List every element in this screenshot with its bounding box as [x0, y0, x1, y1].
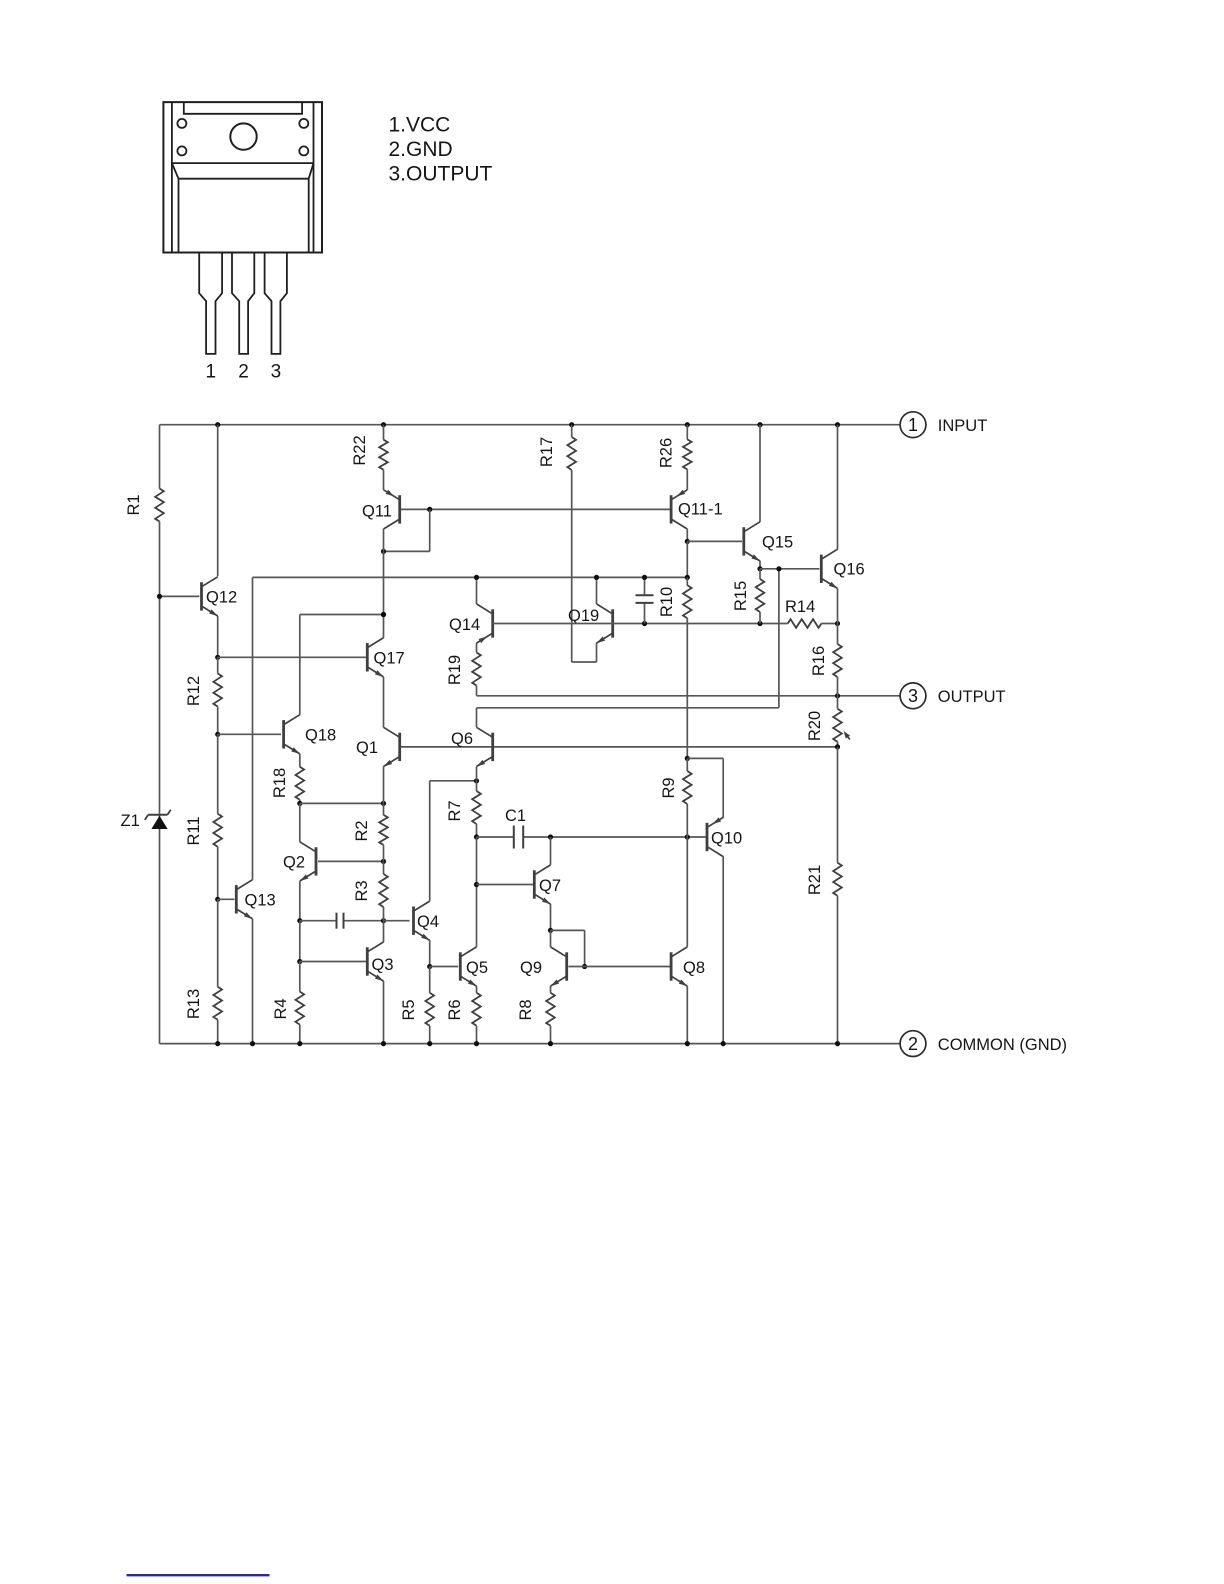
svg-text:R26: R26	[658, 438, 676, 468]
svg-text:R20: R20	[806, 711, 824, 741]
svg-text:Q19: Q19	[568, 607, 599, 625]
svg-text:3.OUTPUT: 3.OUTPUT	[389, 163, 493, 186]
svg-text:1: 1	[206, 362, 217, 383]
svg-text:R18: R18	[271, 768, 289, 798]
svg-text:2: 2	[238, 362, 249, 383]
svg-text:R2: R2	[353, 820, 371, 841]
svg-text:Q13: Q13	[245, 892, 276, 910]
svg-text:R8: R8	[517, 999, 535, 1020]
svg-text:INPUT: INPUT	[938, 417, 988, 435]
svg-text:2: 2	[908, 1034, 918, 1054]
svg-text:Q3: Q3	[372, 956, 394, 974]
svg-text:R9: R9	[660, 777, 678, 798]
svg-text:OUTPUT: OUTPUT	[938, 688, 1006, 706]
svg-text:R11: R11	[185, 816, 203, 845]
svg-text:Q17: Q17	[374, 650, 405, 668]
svg-text:Q4: Q4	[417, 913, 439, 931]
svg-text:R1: R1	[125, 494, 143, 515]
svg-text:R21: R21	[806, 865, 824, 895]
svg-text:R6: R6	[446, 999, 464, 1020]
svg-text:Q1: Q1	[356, 739, 378, 757]
svg-text:1.VCC: 1.VCC	[389, 114, 451, 137]
svg-text:Q14: Q14	[449, 616, 480, 634]
svg-text:Q8: Q8	[683, 959, 705, 977]
svg-text:1: 1	[908, 415, 918, 435]
svg-text:Q11-1: Q11-1	[678, 501, 723, 519]
svg-text:COMMON (GND): COMMON (GND)	[938, 1036, 1067, 1054]
svg-text:Q6: Q6	[451, 730, 473, 748]
svg-text:Q10: Q10	[711, 830, 742, 848]
svg-text:R19: R19	[446, 655, 464, 685]
svg-text:R16: R16	[810, 646, 828, 676]
svg-text:Q12: Q12	[206, 589, 237, 607]
svg-text:Q16: Q16	[834, 561, 865, 579]
svg-text:Q9: Q9	[520, 959, 542, 977]
svg-text:R7: R7	[446, 800, 464, 821]
svg-text:C1: C1	[505, 807, 526, 825]
svg-text:Z1: Z1	[121, 812, 140, 830]
svg-text:Q18: Q18	[305, 727, 336, 745]
svg-text:R10: R10	[658, 587, 676, 617]
svg-text:3: 3	[271, 362, 282, 383]
svg-text:R14: R14	[785, 598, 815, 616]
svg-text:R3: R3	[353, 880, 371, 901]
svg-text:R5: R5	[400, 999, 418, 1020]
svg-text:R15: R15	[732, 581, 750, 611]
svg-text:Q5: Q5	[466, 959, 488, 977]
svg-text:R17: R17	[538, 437, 556, 467]
svg-text:Q7: Q7	[539, 877, 561, 895]
svg-text:R22: R22	[351, 435, 369, 465]
svg-text:Q15: Q15	[762, 534, 793, 552]
svg-text:Q2: Q2	[283, 854, 305, 872]
svg-text:2.GND: 2.GND	[389, 138, 453, 161]
svg-text:R4: R4	[272, 998, 290, 1019]
svg-text:3: 3	[908, 686, 918, 706]
svg-text:R13: R13	[185, 989, 203, 1019]
svg-text:R12: R12	[185, 676, 203, 706]
svg-text:Q11: Q11	[362, 503, 392, 521]
